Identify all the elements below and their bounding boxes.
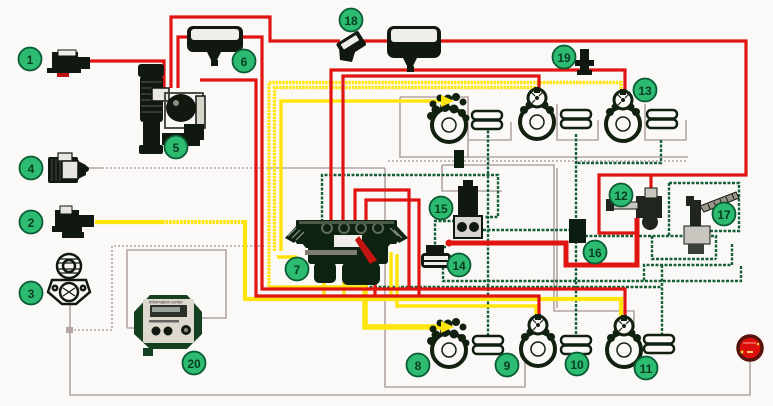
svg-text:3: 3 [28,287,35,301]
wire red checkvalve18 to right edge down to valve12 area [360,41,746,233]
wire yellow valve7 right to disc9 [397,254,536,318]
tank 14 [421,245,451,268]
junction 16 [569,219,586,243]
node 11 [635,357,658,380]
svg-text:8: 8 [415,359,422,373]
wire yellow bottom left horizontal [270,285,365,288]
valve 19 [575,49,594,75]
svg-text:17: 17 [717,208,731,222]
valve 4 [48,153,89,183]
wire green valve17 left vertical [668,183,670,236]
svg-text:15: 15 [434,202,448,216]
wire red valve7 port4 to y296 [366,200,419,296]
node 19 [553,46,576,69]
svg-text:4: 4 [28,162,35,176]
node 5 [165,136,188,159]
wire red valve7 port3 to y289 [355,190,409,289]
yellow arrow chamber 8 [441,321,454,333]
wire gray bracket chamber A [400,97,468,158]
wire red valve7 port1 loop to disc13 [331,70,625,222]
wire green valve7 top left vertical [322,175,498,222]
wire yellow valve7 left loop to discB [275,88,538,252]
chamber 9 cylinder [561,336,591,354]
wire gray left vertical to bottom loop [399,97,401,158]
wire yellow valve7 left port stub [277,255,297,258]
svg-text:7: 7 [294,263,301,277]
trailer valve 17 [684,192,739,254]
wire red valve7 port2 loop to discB [343,76,539,222]
node 9 [496,354,519,377]
svg-text:1: 1 [27,53,34,67]
wire gray bottom main line [70,305,750,395]
chamber 8 cylinder [473,336,503,354]
node 10 [566,353,589,376]
wire yellow valve7 top loop to disc13 [269,83,621,288]
wire red tank6 right long vertical to disc11 [241,37,625,316]
wire red valve12 top feed [649,175,652,189]
wire gray bracket chamber 13 [645,104,686,140]
wire gray band to long vertical [442,165,634,329]
red cap on thick line [446,240,453,247]
svg-text:12: 12 [614,189,628,203]
node 12 [610,184,633,207]
wire yellow valve2 to disc11 [95,220,162,224]
wire red valve7 bottom stub down [373,266,376,296]
wire green junction16 to valve17 lower [585,236,716,259]
wire gray dashed from connector 3 [70,246,266,330]
chamber A disc (top-left) [427,93,470,142]
svg-text:16: 16 [588,246,602,260]
node 7 [286,258,309,281]
svg-text:19: 19 [557,51,571,65]
svg-text:18: 18 [344,14,358,28]
svg-text:14: 14 [452,259,466,273]
node 15 [430,197,453,220]
wire green valve17 top rectangle [669,183,739,231]
chamber A cylinder [472,111,502,129]
yellow arrow chamber A [441,95,454,107]
wire green valve7 long bottom [364,270,662,287]
svg-text:9: 9 [504,359,511,373]
wire yellow valve7 to chamberA feed [281,101,443,251]
node 8 [407,354,430,377]
node 13 [634,79,657,102]
chamber 11 disc [607,315,641,367]
wire gray rail under top chambers [400,156,688,158]
wire green valve15 to tank14 [435,221,455,247]
node 1 [19,48,42,71]
node 6 [233,50,256,73]
wire red compressor1 to dryer5 [88,61,164,90]
wire gray box 20 stem [127,327,148,329]
wire green cylinderA down to cylinder8 [487,126,489,336]
wire gray loop around box 20 [127,250,226,328]
air dryer 5 [138,64,205,154]
node 3 [20,282,43,305]
wire gray bracket chamber A inner [468,122,511,140]
svg-text:10: 10 [570,358,584,372]
svg-text:5: 5 [173,141,180,155]
valve 2 [52,206,94,238]
hand valve 12 [606,188,662,230]
tank 6 [187,26,243,66]
check valve 18 [336,30,367,58]
wire gray bracket chamber B [557,104,598,140]
svg-text:Information center: Information center [149,300,183,305]
wire green valve15 to junction16 [483,229,571,231]
wire gray from valve 4 dotted middle [102,167,267,169]
wire green cylinderC left to cylinderB line [576,140,661,163]
svg-text:11: 11 [640,362,653,376]
valve 15 [454,180,482,238]
chamber 9 disc [521,314,555,366]
node 20 [183,352,206,375]
wire yellow valve7 bottom stub [322,266,325,299]
wire red valve12 bottom to thick line [449,218,637,265]
svg-text:2: 2 [28,216,35,230]
wire green junction16 down to cylinder9 [575,241,577,336]
wire gray second long vertical [556,168,558,308]
connector 3 [48,254,90,304]
wire gray from valve 4 solid head [85,167,102,169]
wire green valve17 U loop1 [652,236,716,259]
wire red dryer5 up over tank6 to checkvalve18 [171,17,340,88]
wire gray rail dashed [388,160,688,162]
chamber 8 disc [427,318,470,367]
node 18 [340,9,363,32]
wire red dryer5 to tank6 left [178,37,189,88]
compressor 1 [47,50,90,77]
gray junction dot at connector 3 line [66,327,73,333]
node 14 [448,254,471,277]
node 4 [20,157,43,180]
chamber 13 cylinder [647,110,677,128]
wire gray elbow below junction bar [442,165,502,191]
svg-text:6: 6 [241,55,248,69]
wire gray from valve 4 solid tail [267,167,385,169]
node 2 [20,211,43,234]
chamber B disc [520,87,554,139]
wire yellow valve7 right port down [389,252,392,299]
svg-text:20: 20 [187,357,201,371]
chamber 11 cylinder [644,335,674,353]
wire yellow thick feed disc8 [365,266,443,327]
wire red dryer5 out to disc9 [200,80,539,318]
chamber 13 disc [606,89,640,141]
info box 20 [134,295,202,356]
foot valve 7 [285,220,408,285]
node 17 [713,203,736,226]
node 16 [584,241,607,264]
chamber B cylinder [561,110,591,128]
check valve 18 base [339,48,355,62]
wire yellow valve7 bottom stub2 [342,266,345,300]
junction bar above valve 15 [454,150,464,168]
stop lamp [738,336,762,360]
wire green valve17 U loop2 [644,244,732,281]
wire green valve17 to cylinder11 [661,265,663,337]
wire green cylinderB down to junction16 [575,134,577,221]
tank top middle [387,26,441,72]
wire green tank14 to valve17 long bottom [443,265,741,281]
svg-text:13: 13 [638,84,652,98]
